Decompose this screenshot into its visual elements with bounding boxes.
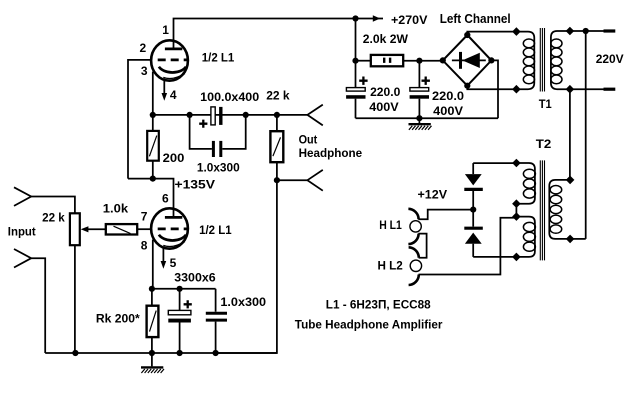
wire V1a grid to +135V node [128,60,151,179]
connector Out top [307,105,322,126]
svg-text:Rk 200*: Rk 200* [96,312,140,326]
transformer T2 core [540,160,544,260]
svg-text:7: 7 [141,209,148,223]
svg-text:3: 3 [141,64,148,78]
transformer T2 upper primary winding [512,159,535,208]
tube V1a envelope 1/2 L1 [151,40,188,80]
wire cathode output node [153,114,308,116]
wire bridge top to T1 primary [467,32,516,35]
svg-text:+270V: +270V [391,13,428,27]
transformer T1 secondary winding [551,27,604,94]
pin 5 heater arrow [161,247,167,269]
node junction output top [274,112,280,118]
node junction B+ rail [352,15,358,21]
svg-text:T2: T2 [536,137,552,151]
tube V1a cathode [159,67,186,73]
wire PSU ground rail [356,117,499,119]
wire C1b top lead [418,61,420,88]
capacitor C4 3300x6 [168,270,216,353]
wire Rk top lead [151,289,153,306]
node junction C3 left [187,112,193,118]
terminal 220V top [604,29,616,32]
node junction cathode-C4 [177,286,183,292]
pot wiper arrow [81,226,106,232]
wire bridge right corner down [491,60,498,118]
svg-text:4: 4 [170,88,177,102]
svg-text:1.0x300: 1.0x300 [220,295,266,309]
terminal 220V bottom [604,88,616,91]
capacitor C2 100.0x400 [199,90,259,128]
wire R4 to V1b grid [137,228,151,230]
wire Rk bottom lead [151,337,153,353]
svg-text:Left Channel: Left Channel [440,11,511,26]
bridge rectifier Left Channel [440,32,495,89]
svg-text:3300x6: 3300x6 [174,270,216,284]
transformer T2 secondary winding [549,176,574,244]
wire T1 secondary top to T2 secondary bottom [585,31,587,239]
connector Input top [14,187,31,206]
wire input bottom to ground rail [31,258,45,353]
wire bridge bottom to T1 primary [467,86,516,90]
node junction C3 right [243,112,249,118]
svg-text:220.0: 220.0 [432,89,464,103]
node junction output bottom [274,177,280,183]
pin 4 heater arrow [162,79,168,101]
connector Input bottom [14,249,31,268]
svg-text:1/2 L1: 1/2 L1 [199,223,232,237]
heater HL1 [408,209,421,244]
tube V1b cathode [159,235,186,241]
svg-text:2: 2 [140,41,147,55]
node junction +12V [470,207,476,213]
node junction C5-rail [213,350,219,356]
node junction +135V [150,176,156,182]
wire V1a cathode down [152,72,154,115]
wire +12V node to HL1 [418,210,473,220]
resistor R1 2.0k 2W [363,32,409,66]
wire HL2 to T2 center tap [419,218,517,275]
svg-text:220.0: 220.0 [370,85,400,99]
heater HL2 [409,247,422,285]
wire T2 primary center tap [515,204,517,217]
tube V1a anode [165,48,182,51]
wire pot bottom to rail [74,245,76,353]
node junction V1a cathode [150,112,156,118]
node junction pot-rail [72,350,78,356]
node junction C4-rail [177,350,183,356]
node junction cathode-Rk [149,286,155,292]
wire R1 left lead [356,60,371,62]
svg-text:2.0k 2W: 2.0k 2W [363,32,409,46]
svg-text:400V: 400V [433,104,464,118]
svg-text:8: 8 [141,239,148,253]
svg-text:Out: Out [299,133,318,147]
wire T1 secondary bottom to T2 secondary top [569,89,571,180]
wire T2 secondary bottom to mains line [570,238,586,240]
diode D2 [464,210,483,257]
svg-text:T1: T1 [539,97,552,111]
wire +135V node to V1b plate [128,179,174,217]
node junction R1 left [352,58,358,64]
tube V1b envelope 1/2 L1 [151,208,188,248]
wire ground rail bottom [45,352,277,354]
svg-text:400V: 400V [369,100,399,114]
ground main [141,353,164,373]
wire B+ down to filter caps [355,19,357,88]
transformer T1 core [540,28,544,92]
node junction C1b top [416,58,422,64]
svg-text:+135V: +135V [175,177,216,191]
capacitor C1a 220.0 400V [346,77,400,119]
svg-text:L1 - 6H23П, ECC88: L1 - 6H23П, ECC88 [326,297,431,311]
wire V1b cathode node [152,288,216,290]
wire V1a plate to +270V rail [174,19,356,48]
resistor R4 1.0k grid stopper [103,201,137,234]
wire output bottom to rail [216,180,277,353]
capacitor C3 1.0x300 [190,115,246,175]
svg-text:22 k: 22 k [42,210,65,224]
wire R2 bottom lead [152,161,154,179]
tube V1a grid [158,59,189,62]
node junction Rk-rail [149,350,155,356]
arrow +270V supply [356,15,384,22]
svg-text:H L2: H L2 [378,258,404,272]
wire input top to volume pot [31,197,75,214]
svg-text:+12V: +12V [418,188,448,202]
resistor R3 22k output load [266,88,290,162]
ground PSU [409,118,432,130]
svg-text:100.0x400: 100.0x400 [200,90,259,104]
svg-text:6: 6 [162,191,169,205]
wire V1b cathode down [152,240,154,289]
svg-text:1: 1 [162,23,169,37]
wire D1 anode to T2 upper winding [473,162,516,164]
wire R1 right to bridge [403,60,443,62]
diode D1 [464,163,483,210]
capacitor C1b 220.0 400V [410,77,465,119]
wire R3 bottom lead [276,162,278,180]
svg-text:1.0x300: 1.0x300 [197,161,240,175]
svg-text:5: 5 [170,256,177,270]
svg-text:22 k: 22 k [266,88,290,102]
tube V1a heater [163,74,185,79]
tube V1b heater [163,242,185,247]
svg-text:1/2 L1: 1/2 L1 [202,51,235,65]
svg-text:H L1: H L1 [379,218,402,232]
potentiometer 22k [42,210,80,245]
svg-text:200: 200 [163,151,185,165]
wire D2 anode to T2 lower winding [473,256,516,258]
wire R2 top lead [152,115,154,131]
transformer T2 lower primary winding [512,212,535,261]
resistor R2 200 [147,131,184,165]
wire to Out connector bottom [277,179,308,181]
transformer T1 primary winding [512,27,534,93]
connector Out bottom [307,170,322,191]
svg-text:Tube Headphone Amplifier: Tube Headphone Amplifier [295,318,443,332]
tube V1b grid [158,227,189,230]
svg-text:220V: 220V [596,52,625,66]
svg-text:1.0k: 1.0k [103,201,129,215]
wire HL1 to HL2 [418,234,426,258]
svg-text:Input: Input [8,224,36,238]
resistor Rk 200* [96,306,159,337]
capacitor C5 1.0x300 [206,289,267,353]
svg-text:Headphone: Headphone [299,146,363,160]
wire R3 top lead [276,115,278,131]
node junction ground rail [416,115,422,121]
tube V1b anode [165,216,182,219]
